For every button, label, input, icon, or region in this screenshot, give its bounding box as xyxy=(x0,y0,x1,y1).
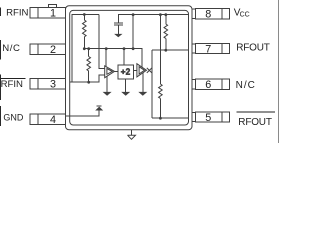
svg-text:4: 4 xyxy=(50,114,56,126)
pin 7 box xyxy=(196,43,222,53)
resistor R1 xyxy=(83,15,87,49)
svg-text:RFIN: RFIN xyxy=(6,8,28,19)
pin 2 box xyxy=(38,44,66,54)
wire RFOUTB pin5 xyxy=(152,117,189,119)
pin 4 lead square xyxy=(30,114,38,124)
wire divider to output buffer xyxy=(133,69,137,71)
wire rail drop to buffer upper input xyxy=(99,15,105,69)
pin 1 tab xyxy=(49,5,57,8)
pin 8 box xyxy=(196,9,222,19)
node RFINB junction xyxy=(87,81,90,84)
resistor R3 xyxy=(164,15,168,51)
wire divider supply drop xyxy=(123,49,125,65)
op-amp input buffer U1 xyxy=(105,66,115,78)
pin 2 lead square xyxy=(30,44,38,54)
pin 6 lead square xyxy=(222,79,229,89)
svg-text:N/C: N/C xyxy=(236,80,256,91)
pin 6 box xyxy=(196,79,222,89)
ground under output buffer xyxy=(142,73,144,92)
wire RFIN left rail xyxy=(72,15,99,83)
divider U2 xyxy=(118,65,133,79)
left edge crop artifact 1 xyxy=(0,8,1,17)
pin 5 lead square xyxy=(222,112,229,122)
pin 8 lead square xyxy=(222,9,229,19)
svg-text:7: 7 xyxy=(205,43,211,55)
svg-text:RFOUT: RFOUT xyxy=(238,117,272,128)
die outline xyxy=(70,10,189,125)
wire output cross upper xyxy=(147,68,152,73)
page right border xyxy=(278,0,280,143)
pin 1 lead square xyxy=(30,8,38,18)
ground flipped pin4 xyxy=(95,107,103,111)
wire RFOUT pin7 xyxy=(152,49,189,51)
svg-text:CC: CC xyxy=(240,11,250,18)
pin 4 box xyxy=(38,114,66,124)
pin 7 lead square xyxy=(222,43,229,53)
pin 8 stub xyxy=(192,8,196,10)
wire output vertical xyxy=(151,50,153,118)
ground under C1 xyxy=(114,34,122,37)
wire buffer to divider xyxy=(115,70,119,72)
pin 3 lead square xyxy=(30,79,38,89)
svg-text:1: 1 xyxy=(50,7,56,19)
pin 5 box xyxy=(196,112,222,122)
wire rail to bus connector xyxy=(132,15,134,49)
svg-text:RFIN: RFIN xyxy=(1,79,23,90)
node bus R1 xyxy=(83,47,86,50)
wire pin3 input xyxy=(70,75,105,82)
svg-text:RFOUT: RFOUT xyxy=(236,43,270,54)
node bus amp supply xyxy=(105,47,108,50)
node bus divider supply xyxy=(123,47,126,50)
wire output cross lower xyxy=(147,68,152,73)
node R4 rail xyxy=(159,13,162,16)
pin 6 stub xyxy=(192,78,196,80)
node R1 rail xyxy=(83,13,86,16)
ground under divider xyxy=(125,79,127,92)
svg-text:3: 3 xyxy=(50,79,56,91)
svg-text:6: 6 xyxy=(205,79,211,91)
pin 5 stub xyxy=(192,111,196,113)
svg-text:N/C: N/C xyxy=(2,43,20,54)
left edge crop artifact 3 xyxy=(0,75,1,101)
svg-text:2: 2 xyxy=(50,44,56,56)
wire bias bus xyxy=(84,49,142,67)
node bus rail connector xyxy=(132,47,135,50)
svg-text:÷2: ÷2 xyxy=(121,67,131,76)
IC package outline xyxy=(66,6,193,130)
left edge crop artifact 4 xyxy=(0,106,1,126)
node R4 output xyxy=(159,117,162,120)
pin 3 box xyxy=(38,79,66,89)
resistor R4 xyxy=(159,15,163,119)
node rail connector top xyxy=(132,13,135,16)
ground under input buffer xyxy=(106,76,108,92)
pin 7 stub xyxy=(192,43,196,45)
op-amp output buffer U3 xyxy=(137,64,147,77)
node R3 rail xyxy=(164,13,167,16)
svg-text:GND: GND xyxy=(3,113,24,123)
left edge crop artifact 2 xyxy=(0,40,1,60)
pin 1 box xyxy=(38,8,66,18)
node bus R2 xyxy=(87,47,90,50)
node R3 output xyxy=(164,49,167,52)
svg-text:8: 8 xyxy=(205,9,211,21)
wire Vcc rail xyxy=(118,15,188,23)
wire GND pin4 xyxy=(66,111,100,116)
svg-text:5: 5 xyxy=(205,112,211,124)
resistor R2 xyxy=(87,49,91,82)
wire amp supply drop xyxy=(105,49,107,67)
ground chassis bottom xyxy=(131,130,133,135)
capacitor C1 xyxy=(114,22,123,24)
